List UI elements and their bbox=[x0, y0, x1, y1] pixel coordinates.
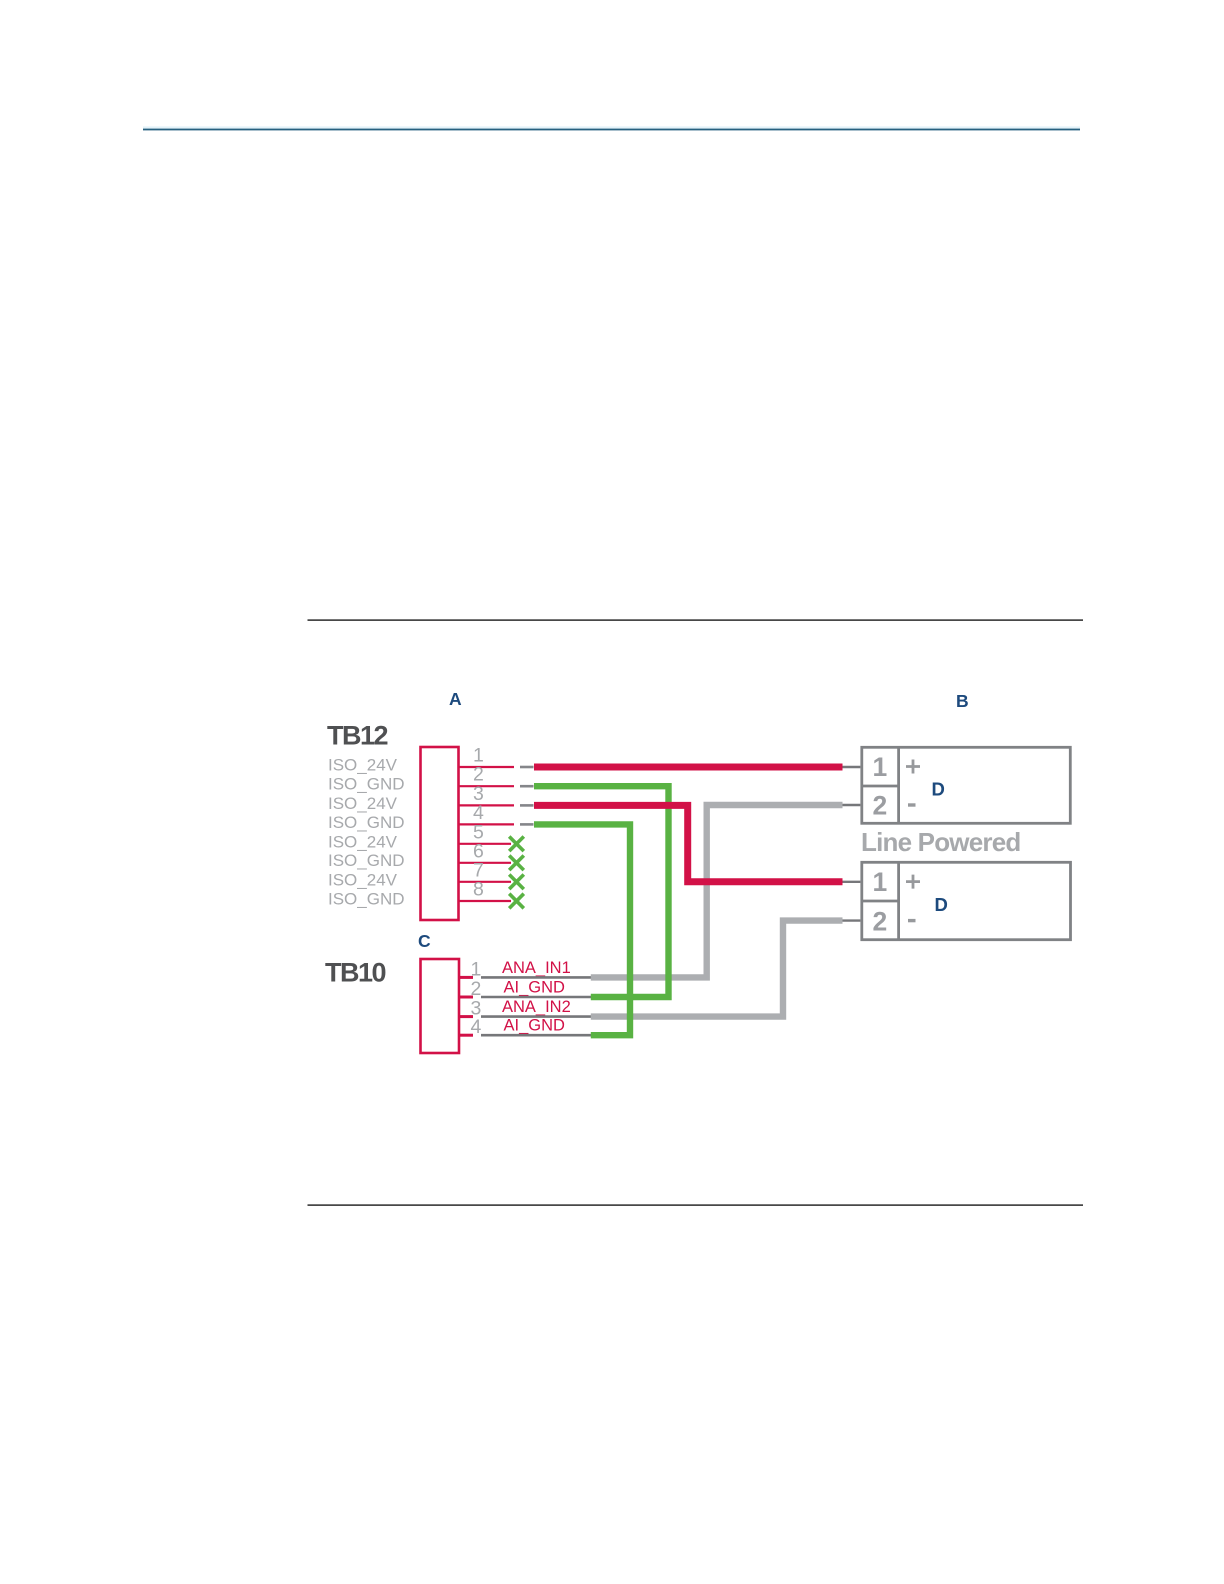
svg-text:ISO_24V: ISO_24V bbox=[328, 756, 398, 775]
svg-text:ANA_IN2: ANA_IN2 bbox=[502, 998, 571, 1016]
connector TB10 body bbox=[421, 959, 460, 1053]
device2 lead plus bbox=[843, 881, 861, 883]
TB10 pin 2 lead wire bbox=[481, 996, 592, 999]
svg-text:TB12: TB12 bbox=[327, 721, 388, 751]
svg-text:1: 1 bbox=[873, 752, 888, 782]
svg-text:ISO_GND: ISO_GND bbox=[328, 890, 405, 909]
svg-text:2: 2 bbox=[873, 907, 888, 937]
svg-text:TB10: TB10 bbox=[325, 958, 386, 988]
wire gray TB10 pin1 to device1 minus bbox=[591, 805, 843, 977]
svg-text:C: C bbox=[418, 931, 431, 951]
svg-text:8: 8 bbox=[473, 879, 484, 901]
svg-text:ISO_24V: ISO_24V bbox=[328, 832, 398, 851]
TB10 pin 1 stub bbox=[460, 976, 473, 979]
TB10 pin 3 lead wire bbox=[481, 1015, 592, 1018]
svg-text:D: D bbox=[932, 779, 945, 800]
wire green TB12 pin2 to TB10 pin2 bbox=[534, 786, 669, 997]
TB12 pin 8 lead bbox=[459, 900, 511, 902]
svg-text:AI_GND: AI_GND bbox=[504, 1017, 566, 1035]
figure bottom rule bbox=[308, 1204, 1084, 1205]
TB12 pin 2 splice stub bbox=[520, 785, 534, 788]
TB12 pin 5 lead bbox=[459, 843, 511, 845]
device1 minus sign bbox=[908, 803, 916, 806]
TB12 pin 7 no-connect X bbox=[509, 875, 524, 890]
device2 body bbox=[862, 862, 1071, 939]
device1 lead plus bbox=[843, 766, 861, 768]
svg-text:Line Powered: Line Powered bbox=[861, 827, 1020, 857]
wire green TB12 pin4 to TB10 pin4 bbox=[534, 824, 630, 1035]
TB12 pin 4 splice stub bbox=[520, 823, 534, 826]
TB10 pin 1 lead wire bbox=[481, 976, 592, 979]
TB12 pin 3 lead bbox=[459, 804, 514, 806]
svg-text:ISO_GND: ISO_GND bbox=[328, 775, 405, 794]
svg-text:ISO_24V: ISO_24V bbox=[328, 794, 398, 813]
TB12 pin 3 splice stub bbox=[520, 804, 534, 807]
TB10 pin 3 stub bbox=[460, 1015, 473, 1018]
svg-text:ISO_GND: ISO_GND bbox=[328, 813, 405, 832]
svg-text:B: B bbox=[956, 691, 969, 711]
TB12 pin 2 lead bbox=[459, 785, 514, 787]
device2 minus sign bbox=[908, 919, 916, 922]
svg-text:AI_GND: AI_GND bbox=[504, 979, 566, 997]
TB10 pin 2 stub bbox=[460, 996, 473, 999]
device1 body bbox=[862, 747, 1071, 823]
wire gray TB10 pin3 to device2 minus bbox=[591, 921, 843, 1017]
connector TB12 body bbox=[421, 747, 459, 920]
svg-text:ISO_GND: ISO_GND bbox=[328, 851, 405, 870]
TB12 pin 1 lead bbox=[459, 766, 514, 768]
wire red TB12 pin3 to device2 plus bbox=[534, 805, 843, 881]
wire red TB12 pin1 to device1 plus bbox=[534, 764, 843, 771]
svg-text:ISO_24V: ISO_24V bbox=[328, 870, 398, 889]
svg-text:1: 1 bbox=[873, 867, 888, 897]
TB12 pin 8 no-connect X bbox=[509, 894, 524, 909]
svg-text:A: A bbox=[449, 689, 462, 709]
TB10 pin 4 lead wire bbox=[481, 1034, 592, 1037]
header rule bbox=[143, 126, 1080, 130]
svg-text:ANA_IN1: ANA_IN1 bbox=[502, 959, 571, 977]
TB10 pin 4 stub bbox=[460, 1034, 473, 1037]
TB12 pin 1 splice stub bbox=[520, 766, 534, 769]
TB12 pin 6 no-connect X bbox=[509, 856, 524, 871]
TB12 pin 6 lead bbox=[459, 862, 511, 864]
TB12 pin 7 lead bbox=[459, 881, 511, 883]
device2 plus sign bbox=[906, 875, 920, 889]
svg-text:2: 2 bbox=[873, 791, 888, 821]
device2 lead minus bbox=[843, 919, 861, 921]
device1 plus sign bbox=[906, 760, 920, 774]
figure top rule bbox=[308, 619, 1084, 620]
svg-text:4: 4 bbox=[471, 1016, 482, 1038]
TB12 pin 4 lead bbox=[459, 823, 514, 825]
TB12 pin 5 no-connect X bbox=[509, 837, 524, 852]
svg-text:D: D bbox=[935, 894, 948, 915]
device1 lead minus bbox=[843, 804, 861, 806]
